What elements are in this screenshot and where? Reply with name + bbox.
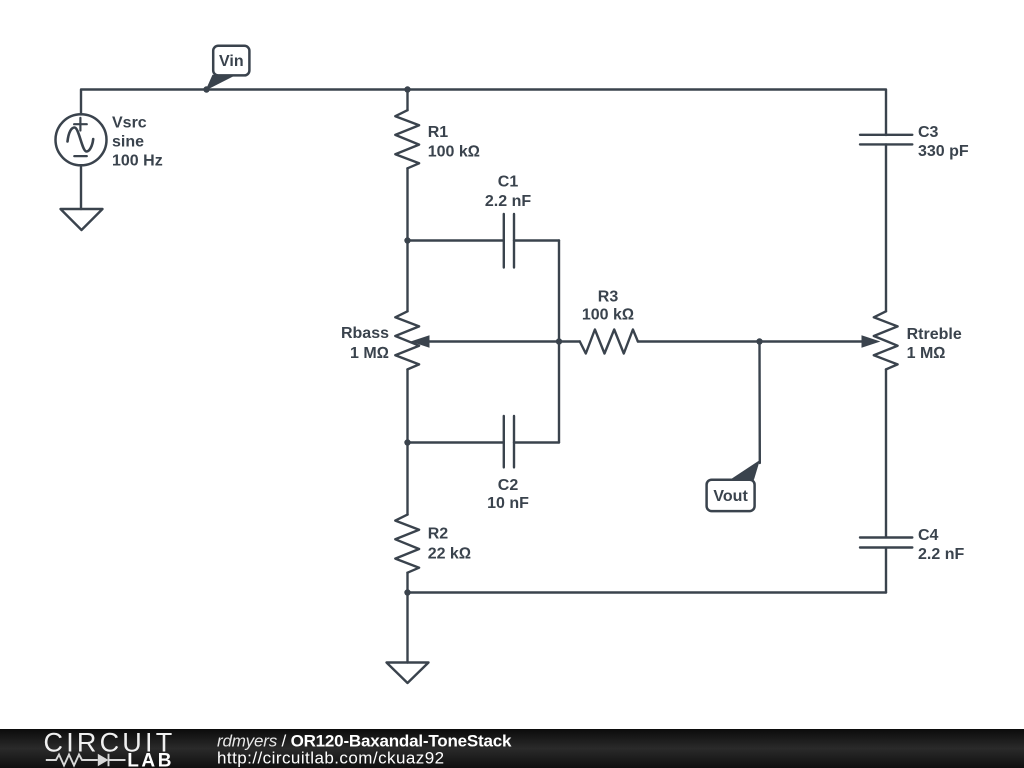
- wire: R2 top lead: [406, 443, 408, 515]
- wire: R2 bottom lead: [406, 573, 408, 593]
- capacitor C4 plates: [860, 538, 912, 548]
- svg-text:Vout: Vout: [713, 488, 748, 505]
- wire: Rbass wiper horizontal: [429, 340, 560, 342]
- wire: Vsrc bottom stub: [80, 165, 82, 209]
- node: R1/Rbass/C1 junction: [404, 237, 410, 243]
- node: Vin tap: [203, 86, 209, 92]
- svg-text:100 kΩ: 100 kΩ: [428, 144, 480, 161]
- ground GND1 (below Vsrc): [61, 209, 103, 230]
- svg-text:R1: R1: [428, 124, 449, 141]
- node: Rbass/C2/R2 junction: [404, 439, 410, 445]
- svg-text:10 nF: 10 nF: [487, 495, 529, 512]
- wire: right rail C3 to Rtreble: [885, 145, 887, 312]
- svg-text:Rtreble: Rtreble: [907, 326, 962, 343]
- wire: ground drop at bottom: [406, 593, 408, 663]
- capacitor C3 plates: [860, 135, 912, 145]
- capacitor C1 plates: [504, 214, 514, 268]
- svg-text:R3: R3: [598, 288, 619, 305]
- svg-text:22 kΩ: 22 kΩ: [428, 546, 471, 563]
- node: wiper/C-link/R3 junction: [556, 338, 562, 344]
- wire: C2 right plate to vertical: [514, 441, 559, 443]
- wire: R1 bottom lead: [406, 168, 408, 240]
- svg-text:C1: C1: [498, 174, 519, 191]
- Vin flag tail: [206, 75, 234, 91]
- svg-text:Rbass: Rbass: [341, 325, 389, 342]
- Vsrc minus sign: [74, 155, 87, 157]
- svg-text:C3: C3: [918, 124, 939, 141]
- wire: R1 top lead: [406, 90, 408, 111]
- resistor R1 zigzag: [395, 110, 419, 168]
- svg-text:100 kΩ: 100 kΩ: [582, 307, 634, 324]
- voltage source Vsrc circle: [56, 114, 107, 165]
- svg-text:Vsrc: Vsrc: [112, 114, 147, 131]
- footer bar: [0, 729, 1024, 768]
- CircuitLab logo diode triangle: [98, 754, 109, 766]
- svg-text:LAB: LAB: [127, 750, 174, 768]
- CircuitLab logo resistor-diode glyph: [46, 754, 126, 766]
- Vout flag tail: [730, 460, 760, 480]
- Rtreble wiper arrowhead: [862, 335, 881, 348]
- wire: C1 right plate to vertical: [514, 239, 559, 241]
- node: R2/ground/bottom rail junction: [404, 589, 410, 595]
- svg-text:C2: C2: [498, 477, 519, 494]
- potentiometer Rbass zigzag: [395, 311, 419, 369]
- wire: node to C1 left plate: [408, 239, 504, 241]
- svg-text:Vin: Vin: [219, 53, 244, 70]
- svg-text:1 MΩ: 1 MΩ: [907, 345, 946, 362]
- wire: C2 left lead: [408, 441, 504, 443]
- svg-text:2.2 nF: 2.2 nF: [485, 193, 531, 210]
- node: Vout junction: [756, 338, 762, 344]
- svg-text:http://circuitlab.com/ckuaz92: http://circuitlab.com/ckuaz92: [217, 749, 445, 768]
- Rbass wiper arrowhead: [411, 335, 430, 348]
- wire: vertical C1-C2 link through node: [558, 241, 560, 443]
- svg-text:100 Hz: 100 Hz: [112, 152, 163, 169]
- ground GND2 (bottom): [387, 663, 429, 684]
- node: R1 top tap: [404, 86, 410, 92]
- resistor R3 zigzag: [580, 330, 638, 354]
- wire: node to R3 left lead: [559, 340, 580, 342]
- svg-text:C4: C4: [918, 527, 939, 544]
- Vsrc sine symbol: [68, 128, 94, 152]
- capacitor C2 plates: [504, 416, 514, 467]
- wire: R3 right lead to Vout node: [638, 340, 760, 342]
- svg-text:1 MΩ: 1 MΩ: [350, 345, 389, 362]
- wire: bottom rail: [408, 591, 887, 593]
- net flag Vin box: [213, 46, 249, 76]
- svg-text:sine: sine: [112, 133, 144, 150]
- wire: Rbass top lead: [406, 241, 408, 312]
- resistor R2 zigzag: [395, 515, 419, 573]
- wire: right rail C4 to bottom rail: [885, 548, 887, 593]
- wire: Vout node to Rtreble wiper: [760, 340, 865, 342]
- wire: top rail from Vsrc to top-right corner: [81, 90, 886, 136]
- net flag Vout box: [707, 480, 755, 511]
- potentiometer Rtreble zigzag: [874, 311, 898, 369]
- Vsrc plus sign: [74, 118, 87, 131]
- wire: right rail Rtreble to C4: [885, 369, 887, 537]
- svg-text:R2: R2: [428, 526, 449, 543]
- wire: Rbass bottom lead: [406, 369, 408, 442]
- svg-text:2.2 nF: 2.2 nF: [918, 546, 964, 563]
- wire: Vout flag drop: [758, 342, 761, 464]
- svg-text:330 pF: 330 pF: [918, 143, 969, 160]
